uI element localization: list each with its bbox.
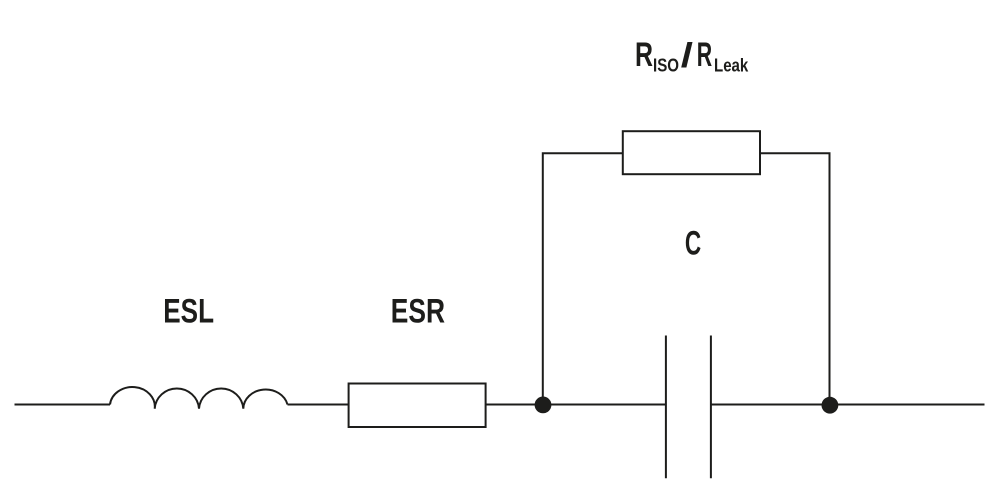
svg-text:ESR: ESR — [391, 293, 445, 331]
svg-text:ISO: ISO — [653, 56, 679, 76]
svg-text:/: / — [681, 37, 694, 75]
svg-text:R: R — [635, 36, 653, 74]
svg-text:ESL: ESL — [163, 293, 214, 331]
svg-text:R: R — [697, 36, 712, 74]
svg-text:Leak: Leak — [714, 56, 749, 76]
svg-text:C: C — [685, 224, 701, 262]
